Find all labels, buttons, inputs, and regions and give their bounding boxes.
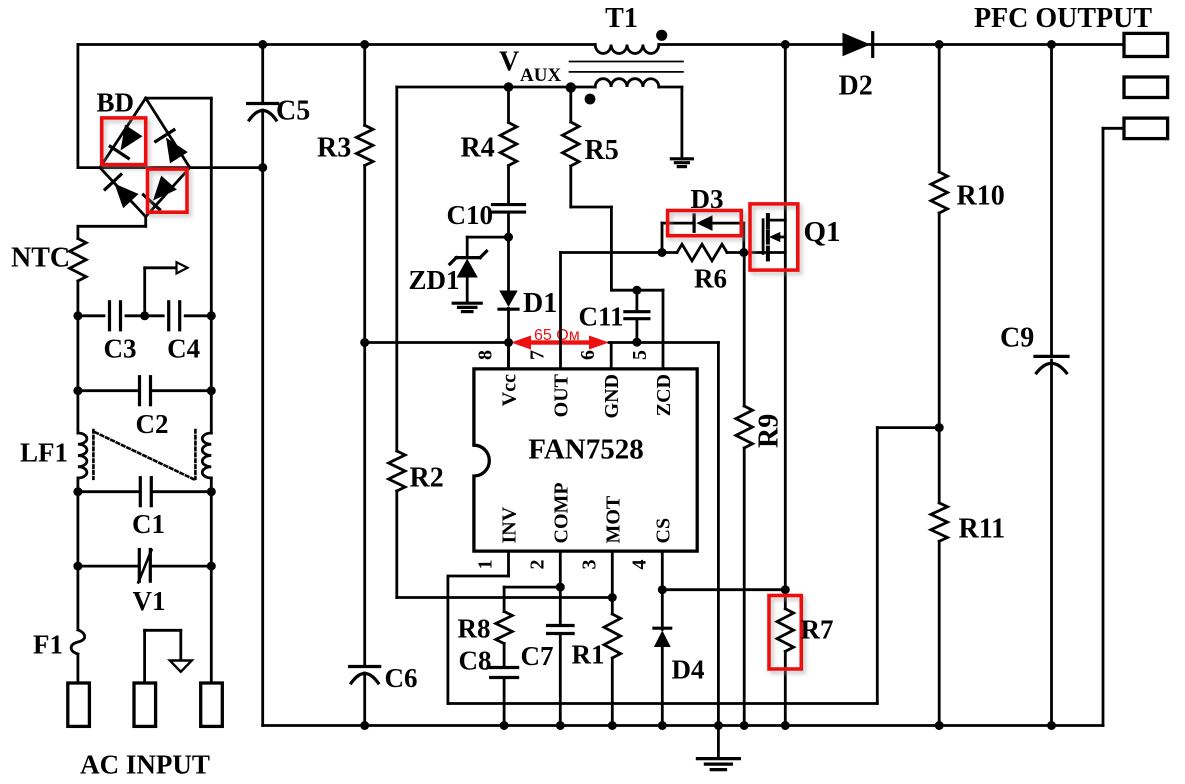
svg-text:Vcc: Vcc (499, 374, 521, 406)
svg-text:C6: C6 (385, 663, 418, 693)
svg-text:C7: C7 (521, 641, 554, 671)
svg-text:ZCD: ZCD (653, 374, 675, 416)
svg-text:COMP: COMP (550, 482, 572, 543)
svg-text:R7: R7 (801, 615, 834, 645)
svg-text:T1: T1 (605, 3, 638, 34)
svg-text:C10: C10 (447, 200, 494, 230)
svg-text:R8: R8 (458, 614, 491, 644)
svg-text:5: 5 (629, 350, 651, 360)
svg-text:ZD1: ZD1 (409, 265, 460, 295)
svg-text:1: 1 (475, 560, 497, 570)
svg-text:6: 6 (577, 350, 599, 360)
svg-text:D2: D2 (839, 71, 873, 102)
svg-text:R2: R2 (410, 463, 444, 494)
svg-text:AUX: AUX (520, 65, 561, 86)
svg-text:8: 8 (475, 350, 497, 360)
svg-text:C11: C11 (579, 302, 624, 332)
svg-text:V1: V1 (133, 586, 166, 616)
svg-text:2: 2 (526, 560, 548, 570)
svg-text:LF1: LF1 (20, 438, 68, 468)
svg-text:INV: INV (499, 506, 521, 543)
svg-text:MOT: MOT (602, 495, 624, 543)
svg-text:Q1: Q1 (804, 216, 841, 248)
svg-text:GND: GND (601, 374, 623, 418)
svg-text:FAN7528: FAN7528 (528, 434, 643, 466)
svg-text:R9: R9 (754, 414, 785, 448)
svg-text:R10: R10 (957, 181, 1005, 212)
svg-text:C4: C4 (167, 334, 200, 364)
svg-text:3: 3 (578, 560, 600, 570)
svg-text:7: 7 (527, 350, 549, 360)
svg-text:R3: R3 (317, 133, 351, 164)
svg-text:4: 4 (628, 560, 650, 570)
svg-text:R4: R4 (461, 133, 495, 164)
svg-text:C3: C3 (104, 334, 137, 364)
svg-text:D1: D1 (523, 288, 557, 319)
svg-text:R5: R5 (585, 135, 619, 166)
svg-text:C5: C5 (276, 96, 310, 127)
svg-text:PFC OUTPUT: PFC OUTPUT (974, 3, 1152, 34)
svg-text:D3: D3 (691, 184, 724, 214)
svg-text:CS: CS (652, 518, 674, 544)
svg-text:V: V (499, 47, 519, 78)
svg-text:C2: C2 (136, 409, 169, 439)
svg-text:OUT: OUT (551, 373, 573, 417)
svg-text:C9: C9 (1000, 323, 1034, 354)
svg-text:F1: F1 (33, 630, 63, 660)
svg-text:R1: R1 (572, 640, 605, 670)
svg-text:AC INPUT: AC INPUT (80, 750, 210, 780)
svg-text:C1: C1 (132, 509, 165, 539)
svg-text:NTC: NTC (11, 243, 70, 274)
svg-text:R6: R6 (694, 264, 727, 294)
svg-text:D4: D4 (672, 655, 705, 685)
svg-text:65 Ом: 65 Ом (534, 327, 580, 344)
svg-text:R11: R11 (959, 514, 1006, 545)
svg-text:BD: BD (97, 88, 135, 118)
svg-text:C8: C8 (459, 646, 492, 676)
